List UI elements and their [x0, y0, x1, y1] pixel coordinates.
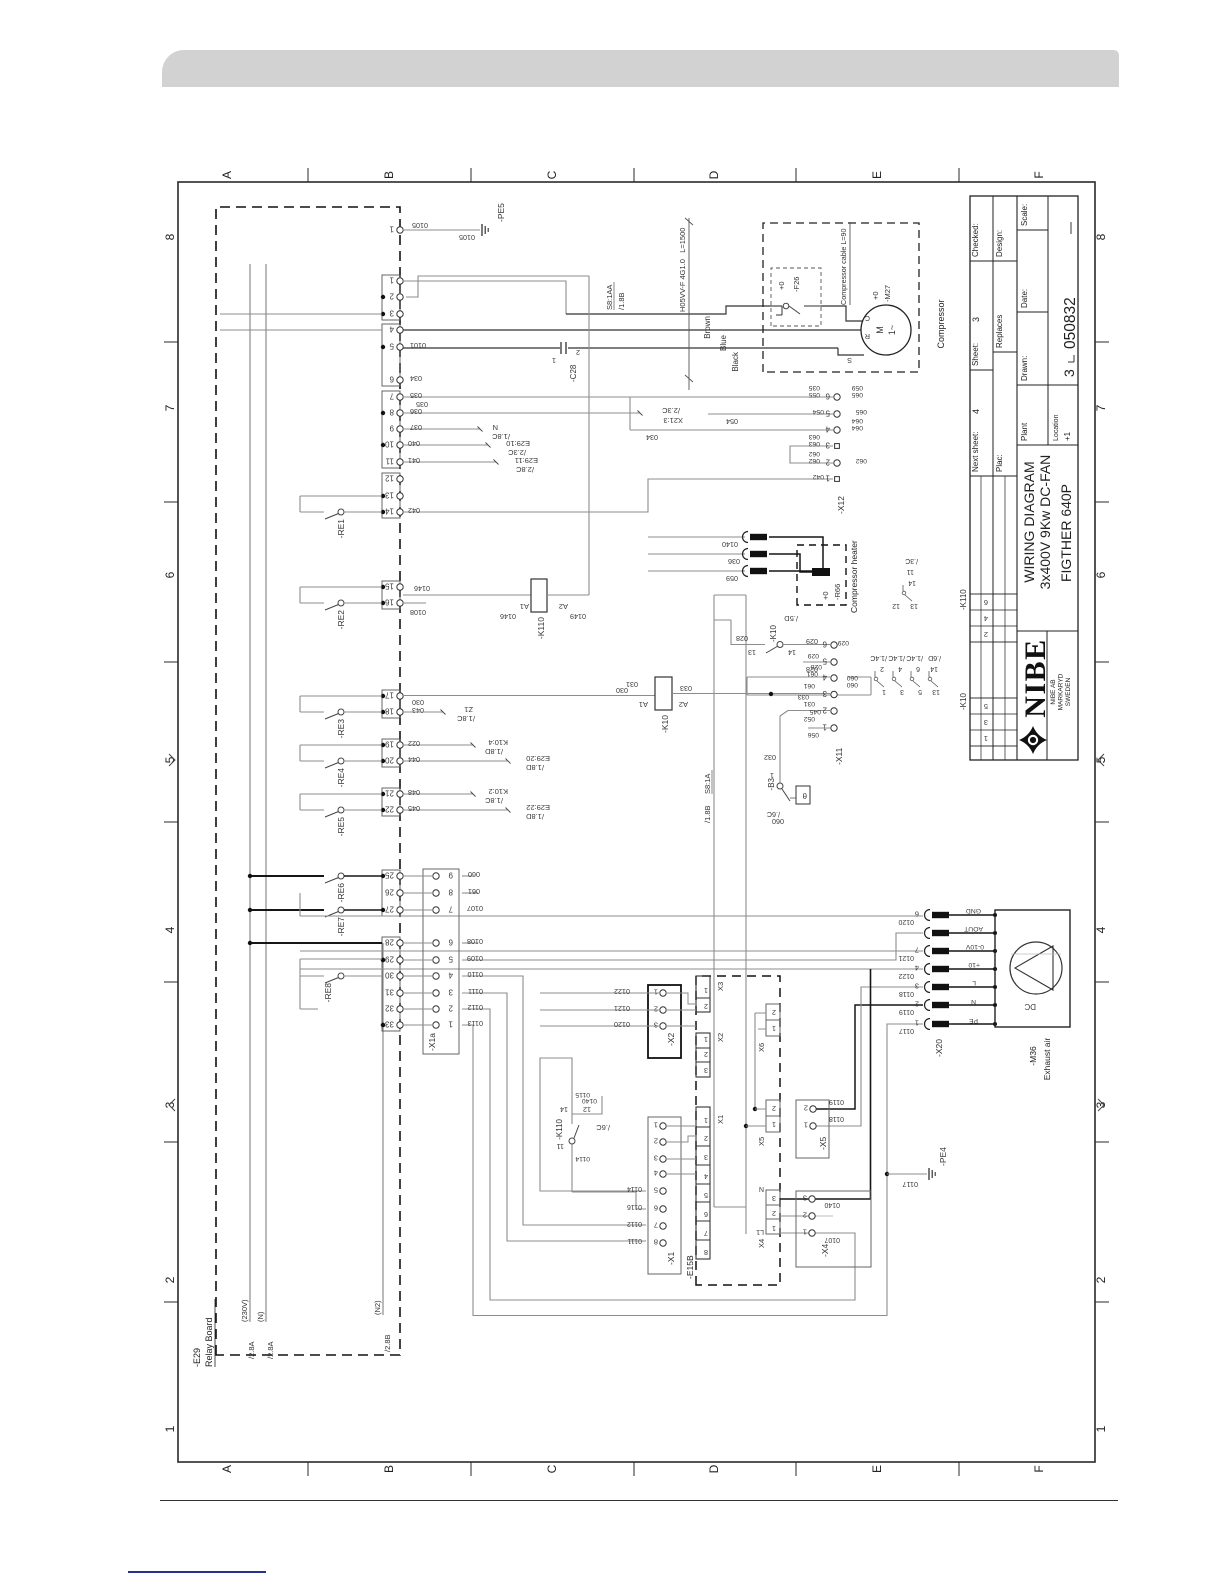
svg-text:1: 1	[772, 1224, 776, 1233]
drawing frame border	[164, 168, 1109, 1476]
svg-text:13: 13	[910, 602, 918, 609]
svg-text:X2: X2	[716, 1033, 725, 1042]
board connector X1 pins	[696, 1107, 725, 1259]
svg-text:1: 1	[654, 1121, 658, 1130]
compressor heater feed wires	[648, 537, 745, 583]
svg-text:0110: 0110	[468, 970, 483, 979]
svg-text:-F26: -F26	[792, 277, 801, 292]
svg-text:(N): (N)	[256, 1311, 265, 1322]
svg-text:Exhaust air: Exhaust air	[1042, 1038, 1052, 1081]
svg-text:6: 6	[448, 938, 453, 947]
svg-text:5: 5	[984, 702, 988, 711]
svg-text:032: 032	[764, 753, 776, 762]
svg-text:0146: 0146	[414, 584, 430, 593]
svg-text:5: 5	[448, 955, 453, 964]
svg-text:4: 4	[898, 665, 902, 672]
svg-text:D: D	[707, 170, 721, 179]
svg-text:1: 1	[1094, 1425, 1108, 1432]
svg-text:0114: 0114	[627, 1185, 642, 1192]
svg-text:042: 042	[812, 473, 824, 480]
cable note H05VV-F 4G1.0 L=1500	[678, 218, 693, 390]
svg-text:8: 8	[389, 408, 394, 417]
label Compressor	[936, 299, 946, 348]
wire 030 terminal 17 to coil -K10	[403, 680, 655, 715]
svg-text:Drawn:: Drawn:	[1020, 356, 1029, 381]
svg-text:E29:11: E29:11	[515, 456, 538, 465]
circuit board -E15B dashed outline	[685, 976, 780, 1285]
svg-text:0140: 0140	[582, 1097, 597, 1104]
svg-text:3x400V 9Kw DC-FAN: 3x400V 9Kw DC-FAN	[1037, 455, 1053, 590]
svg-text:12: 12	[385, 474, 394, 483]
svg-text:2: 2	[772, 1104, 776, 1113]
svg-text:6: 6	[984, 598, 988, 607]
svg-text:3: 3	[822, 689, 827, 698]
svg-text:A1: A1	[520, 602, 529, 611]
svg-text:/1.8C: /1.8C	[484, 796, 503, 805]
heater element -R66	[769, 537, 842, 600]
internal mains feed wires inside relay board	[220, 314, 382, 330]
connector -X5 external	[796, 1098, 844, 1158]
compressor cable L=90 note	[839, 222, 850, 305]
svg-text:5: 5	[704, 1191, 708, 1200]
svg-text:4: 4	[389, 325, 394, 334]
svg-text:062: 062	[855, 457, 867, 464]
wire Brown (terminal 1 to -F26)	[403, 281, 771, 339]
svg-text:Plant: Plant	[1020, 422, 1029, 441]
svg-text:033: 033	[680, 684, 692, 693]
svg-text:(230V): (230V)	[240, 1299, 249, 1322]
svg-text:-K110: -K110	[555, 1118, 564, 1139]
svg-text:A2: A2	[679, 700, 688, 709]
svg-text:2: 2	[772, 1008, 776, 1017]
svg-text:054: 054	[812, 408, 824, 415]
svg-text:+1: +1	[1063, 431, 1072, 441]
svg-text:11: 11	[385, 457, 394, 466]
svg-text:056: 056	[807, 731, 819, 738]
svg-text:A: A	[220, 1465, 234, 1473]
svg-text:0140: 0140	[722, 540, 738, 549]
svg-text:0-10V: 0-10V	[965, 943, 984, 950]
svg-text:B: B	[382, 1465, 396, 1473]
svg-text:0122: 0122	[614, 987, 630, 996]
svg-text:061: 061	[806, 670, 818, 677]
svg-text:3: 3	[654, 1154, 658, 1163]
svg-text:/2.3C: /2.3C	[661, 406, 680, 415]
svg-text:0113: 0113	[468, 1019, 483, 1028]
svg-text:-K110: -K110	[536, 617, 546, 639]
svg-text:1: 1	[804, 1121, 808, 1130]
svg-text:2: 2	[448, 1004, 453, 1013]
wire 0108 terminal 16	[403, 603, 426, 617]
svg-text:/.6C: /.6C	[596, 1123, 610, 1132]
wire 018 terminal 18 reference Z1	[403, 705, 475, 723]
svg-text:30: 30	[385, 971, 394, 980]
svg-text:028: 028	[736, 634, 748, 643]
svg-text:0121: 0121	[898, 954, 914, 961]
svg-text:M: M	[875, 326, 885, 334]
net wire y568	[745, 595, 747, 1234]
svg-text:059: 059	[726, 574, 738, 583]
svg-text:2: 2	[389, 292, 394, 301]
svg-text:27: 27	[385, 905, 394, 914]
contact table -K10	[870, 654, 968, 710]
net S8:1A long wire	[703, 595, 746, 1207]
svg-text:K10:4: K10:4	[488, 738, 508, 747]
svg-text:L1: L1	[756, 1228, 764, 1235]
svg-text:-X5: -X5	[818, 1137, 828, 1151]
connector -X2 external	[648, 985, 681, 1058]
svg-text:9: 9	[389, 424, 394, 433]
loop wire -X11:4 060	[747, 670, 871, 696]
fold marks	[169, 754, 1104, 1111]
svg-text:5: 5	[654, 1186, 658, 1195]
svg-text:F: F	[1032, 1465, 1046, 1472]
page header bar	[162, 50, 1119, 87]
svg-text:X21:3: X21:3	[663, 416, 683, 425]
thermostat -B3 circuit	[764, 711, 830, 802]
svg-text:060: 060	[468, 870, 480, 879]
svg-text:0121: 0121	[614, 1004, 630, 1013]
svg-text:0108: 0108	[467, 937, 483, 946]
svg-text:8: 8	[704, 1248, 708, 1257]
thermostat sensor box	[790, 786, 810, 804]
svg-text:Z1: Z1	[464, 705, 473, 714]
svg-text:A: A	[220, 171, 234, 179]
svg-text:-K10: -K10	[959, 693, 968, 710]
capacitor -C28	[552, 341, 580, 382]
wire 0110 X1a:4 to -X1:7	[462, 976, 646, 1225]
wire 0149 coil A2 to S8:1AA net	[406, 276, 589, 621]
wire -F26 to compressor C	[821, 306, 862, 321]
svg-text:-RE8: -RE8	[323, 983, 333, 1003]
svg-text:Compressor: Compressor	[936, 299, 946, 348]
svg-text:0105: 0105	[459, 233, 475, 242]
svg-text:3: 3	[654, 1021, 658, 1030]
wire RE8 branch to fan +10	[300, 950, 923, 952]
svg-text:7: 7	[704, 1229, 708, 1238]
terminal J1 with wire 0105 to -PE5	[389, 221, 480, 242]
svg-text:C: C	[865, 314, 870, 323]
svg-text:AOUT: AOUT	[964, 925, 983, 932]
svg-text:2: 2	[654, 1005, 658, 1014]
svg-text:-X1a: -X1a	[427, 1033, 437, 1051]
svg-text:7: 7	[654, 1221, 658, 1230]
svg-text:MARKARYD: MARKARYD	[1058, 673, 1065, 710]
svg-text:063: 063	[808, 440, 820, 447]
svg-text:2: 2	[704, 1050, 708, 1059]
svg-text:-X20: -X20	[934, 1039, 944, 1057]
svg-text:1: 1	[448, 1020, 453, 1029]
svg-text:5: 5	[825, 409, 830, 418]
svg-text:0111: 0111	[468, 987, 483, 996]
svg-text:1: 1	[984, 734, 988, 743]
relay board terminal strip 1-33	[382, 275, 403, 1031]
svg-text:0109: 0109	[467, 954, 483, 963]
svg-text:3: 3	[825, 441, 830, 450]
svg-text:063: 063	[808, 433, 820, 440]
svg-text:X4: X4	[757, 1239, 766, 1248]
svg-text:0149: 0149	[570, 612, 586, 621]
svg-text:7: 7	[389, 392, 394, 401]
NIBE address	[1050, 673, 1072, 710]
svg-text:060: 060	[846, 674, 858, 681]
svg-text:A2: A2	[559, 602, 568, 611]
wire 042 terminal 14 to -X12:1	[403, 479, 833, 515]
svg-text:2: 2	[825, 458, 830, 467]
svg-text:Relay Board: Relay Board	[204, 1317, 214, 1367]
svg-text:Scale:: Scale:	[1020, 204, 1029, 226]
relay contact -RE8 (terminal 30)	[248, 941, 382, 1009]
svg-text:S8:1AA: S8:1AA	[605, 285, 614, 310]
net wire y577 to X6	[754, 1013, 756, 1109]
svg-text:1: 1	[822, 723, 827, 732]
svg-text:029: 029	[837, 639, 849, 646]
compressor motor -M27	[847, 285, 911, 365]
svg-text:12: 12	[583, 1105, 591, 1114]
fan motor -M36 box	[995, 910, 1070, 1027]
relay contact -RE3 (17-18)	[300, 696, 382, 738]
svg-text:X1: X1	[716, 1115, 725, 1124]
svg-text:045: 045	[809, 708, 821, 715]
svg-text:26: 26	[385, 888, 394, 897]
svg-text:5: 5	[918, 688, 922, 695]
svg-text:7: 7	[448, 905, 453, 914]
svg-text:/1.8D: /1.8D	[525, 763, 544, 772]
svg-text:-K110: -K110	[959, 589, 968, 610]
svg-text:2: 2	[804, 1104, 808, 1113]
svg-text:/1.8B: /1.8B	[703, 805, 712, 823]
svg-text:061: 061	[468, 887, 480, 896]
wire 054 terminal 8 / reference X21:3	[403, 406, 833, 426]
svg-text:E29:22: E29:22	[526, 803, 550, 812]
svg-text:1: 1	[770, 771, 774, 780]
svg-text:044: 044	[408, 755, 420, 764]
svg-text:/1.4C: /1.4C	[870, 654, 887, 661]
svg-text:064: 064	[851, 417, 863, 424]
svg-text:3: 3	[1061, 369, 1077, 377]
changeover contact -K110 11/12/14	[555, 1076, 610, 1192]
svg-text:3: 3	[772, 1194, 776, 1203]
svg-text:3: 3	[704, 1066, 708, 1075]
svg-text:-K10: -K10	[769, 625, 778, 642]
svg-text:8: 8	[163, 233, 177, 240]
svg-text:0114: 0114	[575, 1155, 590, 1162]
svg-text:Next sheet:: Next sheet:	[971, 432, 980, 472]
svg-text:SWEDEN: SWEDEN	[1065, 677, 1072, 706]
svg-text:12: 12	[892, 602, 900, 609]
relay board -E29 dashed enclosure	[216, 207, 400, 1355]
svg-text:042: 042	[408, 506, 420, 515]
svg-text:3: 3	[803, 1194, 807, 1203]
svg-text:11: 11	[557, 1142, 564, 1151]
svg-text:-RE7: -RE7	[336, 917, 346, 937]
svg-text:3: 3	[915, 982, 919, 991]
compressor dashed enclosure	[763, 223, 919, 372]
svg-text:B: B	[382, 171, 396, 179]
svg-text:H05VV-F 4G1.0 L=1500: H05VV-F 4G1.0 L=1500	[678, 228, 687, 312]
relay coil -K10	[639, 677, 688, 733]
svg-text:059: 059	[851, 384, 863, 391]
svg-text:Replaces: Replaces	[995, 315, 1004, 348]
svg-text:-PE4: -PE4	[938, 1147, 948, 1166]
svg-text:2: 2	[984, 630, 988, 639]
svg-text:040: 040	[408, 439, 420, 448]
svg-text:0116: 0116	[627, 1203, 642, 1210]
svg-text:2: 2	[822, 706, 827, 715]
svg-text:Checked:: Checked:	[971, 223, 980, 257]
svg-text:6: 6	[915, 910, 919, 919]
svg-text:/2.8A: /2.8A	[266, 1341, 275, 1359]
svg-text:-M27: -M27	[883, 285, 892, 302]
svg-text:7: 7	[1094, 404, 1108, 411]
svg-text:0118: 0118	[899, 990, 914, 997]
svg-text:4: 4	[448, 971, 453, 980]
svg-text:062: 062	[808, 450, 820, 457]
svg-text:NIBE: NIBE	[1019, 638, 1052, 717]
svg-text:-X12: -X12	[836, 496, 846, 514]
svg-text:16: 16	[385, 598, 394, 607]
svg-text:062: 062	[808, 457, 820, 464]
svg-text:Date:: Date:	[1020, 289, 1029, 308]
svg-text:Brown: Brown	[703, 316, 712, 339]
X12 wire numbers	[808, 384, 867, 480]
svg-text:-RE1: -RE1	[336, 519, 346, 539]
wire 0119 -X5:2 to fan N	[816, 1005, 923, 1109]
svg-text:X5: X5	[757, 1137, 766, 1146]
svg-text:A1: A1	[639, 700, 648, 709]
wires board X4 to -X4	[780, 1199, 826, 1233]
reference S8:1AA /1.8B	[605, 282, 626, 310]
svg-text:E: E	[870, 171, 884, 179]
svg-text:N: N	[493, 423, 498, 432]
connector -X1a	[423, 869, 459, 1054]
svg-text:1: 1	[654, 988, 658, 997]
svg-text:+0: +0	[821, 591, 830, 600]
svg-text:3: 3	[389, 309, 394, 318]
svg-text:0117: 0117	[899, 1027, 914, 1034]
heater sleeve terminals	[743, 532, 768, 577]
relay contact -RE2 (15-16)	[300, 587, 382, 629]
svg-text:20: 20	[385, 756, 394, 765]
svg-text:2: 2	[163, 1276, 177, 1283]
svg-text:0107: 0107	[467, 904, 483, 913]
svg-text:2: 2	[704, 1134, 708, 1143]
svg-text:PE: PE	[968, 1017, 978, 1024]
svg-text:6: 6	[916, 665, 920, 672]
svg-text:25: 25	[385, 871, 394, 880]
wire Blue (terminal 4 to compressor R)	[403, 330, 862, 351]
svg-text:1: 1	[704, 1035, 708, 1044]
wire 044 terminal 20 reference E29:20	[403, 754, 550, 772]
auxiliary contact -K10 13/14	[731, 614, 830, 657]
svg-text:0146: 0146	[500, 612, 516, 621]
svg-text:11: 11	[907, 568, 914, 575]
svg-text:WIRING DIAGRAM: WIRING DIAGRAM	[1021, 461, 1037, 582]
relay contact -RE7 (terminal 27)	[248, 907, 382, 936]
svg-text:29: 29	[385, 955, 394, 964]
svg-text:0119: 0119	[829, 1098, 844, 1105]
svg-text:0111: 0111	[627, 1237, 642, 1244]
label Compressor heater	[849, 540, 859, 613]
svg-text:8: 8	[1094, 233, 1108, 240]
svg-text:28: 28	[385, 938, 394, 947]
connector -X1 external	[648, 1117, 681, 1274]
svg-text:022: 022	[408, 739, 420, 748]
svg-text:1: 1	[389, 225, 394, 234]
svg-text:1: 1	[704, 986, 708, 995]
svg-text:054: 054	[726, 417, 738, 426]
wire 0112 X1a:2 to -X4:1	[462, 1009, 855, 1300]
svg-text:0105: 0105	[412, 221, 428, 230]
wire 0146 terminal 15 to coil -K110	[403, 584, 531, 621]
wires -X2 to board pins	[666, 993, 696, 1026]
svg-text:-X11: -X11	[834, 747, 844, 765]
svg-text:E29:20: E29:20	[526, 754, 550, 763]
wire 0113 X1a:1 to fan PE net	[462, 1024, 923, 1316]
svg-text:055: 055	[808, 391, 820, 398]
wire 033 coil -K10 A2 to -X11:3	[672, 684, 830, 694]
footer blue mark	[128, 1571, 266, 1573]
svg-text:0117: 0117	[903, 1180, 918, 1189]
relay contact -RE6 (terminal 25)	[248, 873, 382, 902]
svg-text:14: 14	[560, 1105, 568, 1114]
svg-text:-K10: -K10	[660, 715, 670, 733]
svg-text:S8:1A: S8:1A	[703, 774, 712, 794]
wire terminal 10 reference E29:10 /2.3C	[403, 439, 530, 457]
svg-text:-M36: -M36	[1028, 1046, 1038, 1066]
svg-text:029: 029	[807, 652, 819, 659]
wire -X11:1 stub	[808, 727, 830, 729]
relay contact -RE1 (13-14)	[300, 496, 382, 538]
svg-text:Compressor heater: Compressor heater	[849, 540, 859, 613]
wires X20 to fan box	[949, 913, 997, 1026]
wire 0118 -X5:1 to fan L	[816, 987, 923, 1126]
svg-text:3: 3	[900, 688, 904, 695]
svg-text:1~: 1~	[887, 325, 897, 335]
svg-text:0120: 0120	[614, 1020, 630, 1029]
svg-text:050832: 050832	[1062, 297, 1079, 349]
X20 signal names	[964, 907, 984, 1024]
svg-text:10: 10	[385, 440, 394, 449]
wire 022 terminal 19 reference K10:4	[403, 738, 508, 756]
wire bus (N)	[256, 264, 275, 1359]
svg-text:034: 034	[410, 374, 422, 383]
svg-text:036: 036	[410, 407, 422, 416]
svg-text:-R66: -R66	[833, 584, 842, 600]
svg-text:1: 1	[915, 1019, 919, 1028]
svg-text:/1.8D: /1.8D	[484, 747, 503, 756]
svg-text:3: 3	[984, 718, 988, 727]
svg-text:3: 3	[448, 988, 453, 997]
relay contact -RE5 (21-22)	[300, 794, 382, 836]
svg-text:/1.8B: /1.8B	[617, 292, 626, 310]
svg-text:/2.8C: /2.8C	[515, 465, 534, 474]
svg-text:1: 1	[772, 1024, 776, 1033]
svg-text:045: 045	[408, 804, 420, 813]
svg-text:14: 14	[908, 579, 916, 586]
wire bus (230V)	[240, 264, 256, 1359]
svg-text:N: N	[759, 1185, 764, 1192]
svg-text:060: 060	[846, 681, 858, 688]
svg-text:E29:10: E29:10	[506, 439, 530, 448]
svg-text:-RE6: -RE6	[336, 883, 346, 903]
svg-text:S: S	[847, 356, 852, 365]
title block field labels	[971, 204, 1079, 472]
svg-text:C: C	[545, 170, 559, 179]
svg-text:6: 6	[1094, 571, 1108, 578]
svg-text:N: N	[971, 998, 976, 1005]
svg-text:7: 7	[163, 404, 177, 411]
